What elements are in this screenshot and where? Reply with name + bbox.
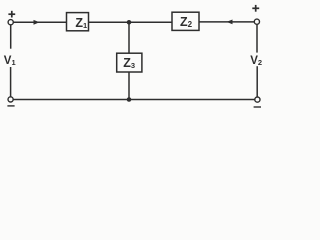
wire: V2 label gap down to terminal 2' xyxy=(256,66,258,97)
minus sign at terminal 1' xyxy=(7,105,14,107)
current arrow I1 (pointing right) xyxy=(34,20,40,25)
plus sign at terminal 1 (top-left) xyxy=(8,11,15,18)
wire: Z3 bottom down to node B xyxy=(128,72,130,100)
junction node A (top) xyxy=(127,20,132,25)
current arrow I2 (pointing left) xyxy=(227,20,233,25)
impedance Z3 (box) xyxy=(117,53,142,72)
wire: terminal 1 to Z1 left xyxy=(13,21,66,23)
minus sign at terminal 2' xyxy=(254,106,261,108)
plus sign at terminal 2 (top-right) xyxy=(252,5,259,12)
wire: terminal 2 down to V2 label gap xyxy=(256,24,258,52)
terminal 1 (top-left, open circle) xyxy=(8,20,13,25)
wire: Z1 right to Z2 left (through node A) xyxy=(89,21,173,23)
junction node B (bottom) xyxy=(127,97,132,102)
wire: Z2 right to terminal 2 xyxy=(199,21,254,23)
impedance Z2 (box) xyxy=(172,12,199,30)
terminal 2' (bottom-right, open circle) xyxy=(255,97,260,102)
wire: terminal 1 down to V1 label gap xyxy=(10,25,12,49)
wire: V1 label gap down to terminal 1' xyxy=(10,67,12,97)
terminal 2 (top-right, open circle) xyxy=(254,19,259,24)
wire: bottom rail (terminal 1' to terminal 2') xyxy=(13,99,255,101)
wire: node A down to Z3 top xyxy=(128,22,130,53)
terminal 1' (bottom-left, open circle) xyxy=(8,97,13,102)
impedance Z1 (box) xyxy=(67,13,89,31)
